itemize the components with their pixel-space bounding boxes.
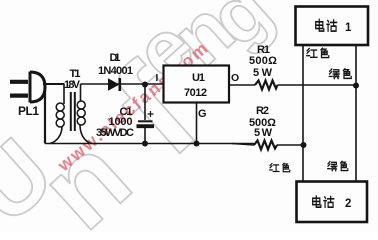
svg-text:G: G xyxy=(198,108,207,120)
svg-text:PL1: PL1 xyxy=(18,104,39,118)
svg-text:5 W: 5 W xyxy=(253,67,273,79)
svg-text:O: O xyxy=(231,72,239,84)
svg-text:U1: U1 xyxy=(192,72,205,84)
svg-text:18V: 18V xyxy=(64,79,81,91)
svg-text:I: I xyxy=(156,73,159,84)
svg-text:2: 2 xyxy=(345,198,351,210)
svg-text:500Ω: 500Ω xyxy=(249,55,277,67)
svg-text:D1: D1 xyxy=(110,52,121,64)
svg-text:5 W: 5 W xyxy=(254,127,273,139)
svg-text:R2: R2 xyxy=(256,105,269,117)
svg-text:1N4001: 1N4001 xyxy=(98,65,133,77)
svg-text:35WVDC: 35WVDC xyxy=(96,127,134,139)
svg-text:7012: 7012 xyxy=(184,87,207,99)
svg-text:1: 1 xyxy=(345,22,352,34)
